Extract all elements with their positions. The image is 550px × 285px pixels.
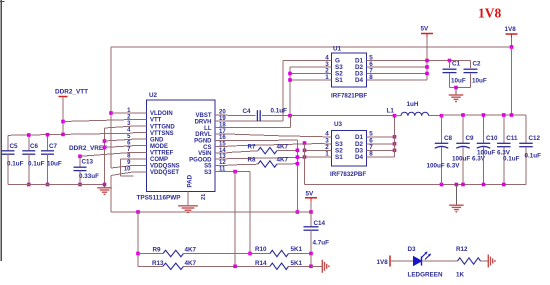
- resistor R7 4K7: [228, 151, 259, 153]
- svg-text:1V8: 1V8: [478, 6, 501, 21]
- wire U1 drains to 5V column D1: [374, 60, 428, 62]
- ground left rail: [104, 185, 106, 188]
- capacitor C14 4.7uF: [310, 212, 312, 227]
- wire 1V8 drop to cap bank: [511, 47, 513, 115]
- svg-text:R12: R12: [456, 246, 468, 253]
- node divider tap upper: [248, 252, 252, 256]
- svg-text:VTTSNS: VTTSNS: [150, 131, 174, 137]
- node GND pin5: [103, 139, 107, 143]
- ground bank: [455, 185, 457, 206]
- svg-text:0.1uF: 0.1uF: [7, 161, 24, 168]
- wire D3: [374, 73, 428, 75]
- svg-text:C1: C1: [452, 61, 461, 68]
- svg-text:C13: C13: [82, 159, 94, 166]
- svg-text:U2: U2: [149, 92, 158, 99]
- wire 1V8 riser to VLDOIN/VDDQSNS: [110, 47, 112, 168]
- node C11 bottom: [502, 183, 506, 187]
- node S1 tie: [303, 155, 307, 159]
- svg-text:C4: C4: [243, 108, 252, 115]
- wire PGOOD to U3 S1: [228, 157, 325, 159]
- svg-text:S1: S1: [335, 154, 343, 161]
- svg-text:GND: GND: [150, 137, 164, 143]
- wire upper divider tap riser: [249, 172, 251, 254]
- node R8 end: [296, 162, 300, 166]
- svg-text:U3: U3: [334, 121, 343, 128]
- node C6 top: [27, 133, 31, 137]
- capacitor C13 0.33uF: [79, 156, 81, 167]
- node C10 top: [482, 113, 486, 117]
- node bank bottom C8: [440, 183, 444, 187]
- node VLDOIN junction: [109, 111, 113, 115]
- svg-text:1V8: 1V8: [505, 26, 517, 33]
- U1 pin stubs: [325, 60, 332, 62]
- node C4 LL junction: [288, 114, 292, 118]
- node CS S-tie: [303, 141, 307, 145]
- svg-text:4K7: 4K7: [277, 157, 289, 164]
- wire pin6 MODE: [105, 146, 134, 148]
- svg-text:R9: R9: [153, 247, 162, 254]
- node C6 bottom: [27, 183, 31, 187]
- svg-text:0.1uF: 0.1uF: [525, 153, 542, 160]
- svg-text:16: 16: [219, 135, 226, 141]
- svg-text:1: 1: [325, 151, 329, 158]
- capacitor C11 0.1uF: [503, 115, 505, 143]
- U2 pin stubs right: [215, 114, 228, 116]
- capacitor C6 0.1uF: [28, 135, 30, 151]
- wire 5V west riser: [110, 176, 112, 213]
- svg-text:D3: D3: [408, 246, 417, 253]
- node C14 R10 junction: [309, 252, 313, 256]
- svg-text:0.1uF: 0.1uF: [503, 156, 520, 163]
- svg-text:DRVH: DRVH: [195, 119, 212, 125]
- svg-text:15: 15: [219, 142, 226, 148]
- svg-text:LEDGREEN: LEDGREEN: [408, 272, 443, 279]
- svg-text:COMP: COMP: [150, 157, 168, 163]
- node R9 riser on 5V wire: [136, 210, 140, 214]
- wire D2: [374, 66, 428, 68]
- svg-text:11: 11: [219, 166, 226, 172]
- wire D1 row extension to C1 C2: [427, 60, 471, 62]
- svg-text:C5: C5: [10, 143, 19, 150]
- node R7 end on drop column: [296, 149, 300, 153]
- svg-text:18: 18: [219, 122, 226, 128]
- node D3 junction: [425, 72, 429, 76]
- svg-text:20: 20: [219, 110, 226, 116]
- wire D4: [374, 79, 428, 81]
- svg-text:C2: C2: [473, 61, 482, 68]
- wire DRVL to U3 gate: [228, 134, 281, 136]
- wire C14 bottom to gnd: [310, 254, 312, 267]
- svg-text:10uF: 10uF: [472, 77, 487, 84]
- U2 pin stubs left: [133, 112, 147, 114]
- wire CS to U3 S3: [228, 143, 325, 146]
- wire pin9 VDDQSNS: [111, 165, 133, 168]
- svg-text:S1: S1: [335, 77, 343, 84]
- svg-text:5V: 5V: [421, 26, 430, 33]
- node C9 bottom: [461, 183, 465, 187]
- node L1 left: [393, 114, 397, 118]
- svg-text:4K7: 4K7: [185, 260, 197, 267]
- svg-text:IRF7821PBF: IRF7821PBF: [331, 93, 367, 100]
- svg-text:8: 8: [369, 151, 373, 158]
- capacitor C12 0.1uF: [525, 115, 527, 143]
- svg-text:LL: LL: [204, 126, 212, 132]
- svg-text:17: 17: [219, 129, 226, 135]
- node MODE pin6: [103, 146, 107, 150]
- svg-text:DDR2_VREF: DDR2_VREF: [69, 145, 107, 152]
- node C7 top: [46, 133, 50, 137]
- wire C1 C2 bottom: [450, 87, 471, 89]
- capacitor C10 100uF 6.3V: [483, 115, 485, 143]
- svg-text:21: 21: [201, 194, 207, 200]
- resistor R9 4K7: [138, 253, 163, 255]
- svg-text:5V: 5V: [306, 191, 315, 198]
- resistor R8 4K7: [228, 163, 259, 166]
- svg-text:12: 12: [219, 160, 226, 166]
- svg-text:R7: R7: [248, 143, 257, 150]
- wire S2 right segment: [305, 149, 325, 151]
- wire LL row: [228, 127, 291, 129]
- node U1 S2 junction: [288, 72, 292, 76]
- svg-text:0.33uF: 0.33uF: [79, 173, 99, 180]
- sheet border left edge: [0, 0, 2, 261]
- wire left gnd rail: [8, 184, 105, 186]
- wire R9 R13 riser: [137, 212, 139, 266]
- resistor R13 4K7: [138, 265, 163, 267]
- node C10 bottom: [482, 183, 486, 187]
- wire 5V drop to U1 drains: [426, 34, 428, 38]
- wire U1 S2: [290, 73, 325, 75]
- U2 pad pin 21 stub: [187, 192, 189, 206]
- U3 pin stubs: [325, 136, 332, 138]
- wire VBST to C4: [228, 115, 256, 117]
- svg-text:R8: R8: [248, 157, 257, 164]
- svg-text:D1: D1: [355, 134, 364, 141]
- wire source tie to gnd rail: [304, 144, 306, 185]
- transistor U1 IRF7821PBF box: [332, 53, 367, 87]
- svg-text:S5: S5: [204, 164, 212, 170]
- wire pin1 VLDOIN: [111, 112, 133, 114]
- wire U1 source tie vertical: [289, 67, 291, 116]
- svg-text:1: 1: [325, 74, 329, 81]
- node L1 right: [440, 114, 444, 118]
- svg-text:4K7: 4K7: [277, 143, 289, 150]
- wire LED anode: [390, 260, 414, 262]
- svg-text:TPS51116PWP: TPS51116PWP: [137, 194, 182, 201]
- wire U1 S1: [290, 79, 325, 81]
- svg-text:PGND: PGND: [194, 139, 212, 145]
- wire LL riser: [290, 116, 292, 128]
- svg-text:MODE: MODE: [150, 144, 168, 150]
- node 1V8 rail end: [510, 45, 514, 49]
- ground U2 pad: [178, 205, 198, 207]
- svg-text:C8: C8: [444, 135, 453, 142]
- svg-text:C11: C11: [506, 135, 518, 142]
- wire DRVH to U1 gate: [228, 120, 284, 122]
- wire PGND drop to 5V wire: [296, 140, 298, 212]
- node R9 left: [136, 252, 140, 256]
- wire bank bottom rail: [442, 184, 527, 186]
- wire pin10 VDDQSET: [111, 172, 133, 176]
- node VTT junction: [61, 120, 65, 124]
- node C7 bottom: [46, 183, 50, 187]
- node C13 bottom: [78, 183, 82, 187]
- svg-text:D4: D4: [355, 154, 364, 161]
- wire U3 drains collector: [374, 136, 395, 138]
- node C1C2 gnd tap: [454, 86, 458, 90]
- svg-text:L1: L1: [387, 108, 395, 115]
- transistor U3 IRF7832PBF box: [332, 131, 367, 167]
- wire 1V8 bank top rail: [442, 114, 527, 116]
- svg-text:1V8: 1V8: [377, 259, 389, 266]
- node C9 top: [461, 113, 465, 117]
- resistor R12 1K: [422, 260, 458, 262]
- wire PGND: [228, 139, 298, 141]
- capacitor C2 10uF: [470, 61, 472, 69]
- ground sideways R12: [487, 255, 489, 268]
- wire drain column to L1: [394, 116, 396, 157]
- svg-text:C12: C12: [529, 135, 541, 142]
- svg-text:C14: C14: [314, 220, 326, 227]
- node drop column on S1: [296, 155, 300, 159]
- wire pin8 COMP: [120, 158, 133, 160]
- node U1 S1 junction: [288, 78, 292, 82]
- node pin11 branch: [233, 170, 237, 174]
- wire 1V8 top rail: [111, 46, 512, 48]
- svg-text:VDDQSET: VDDQSET: [150, 170, 179, 176]
- svg-text:VBST: VBST: [195, 113, 211, 119]
- node 1V8 bank: [510, 113, 514, 117]
- LED D3 LEDGREEN: [414, 257, 422, 266]
- node bank gnd tap: [455, 183, 459, 187]
- svg-text:R13: R13: [152, 260, 164, 267]
- svg-text:5K1: 5K1: [291, 246, 303, 253]
- inductor L1 1uH: [395, 115, 402, 117]
- svg-text:5K1: 5K1: [291, 260, 303, 267]
- svg-text:C7: C7: [49, 143, 58, 150]
- node D1 5V junction: [425, 59, 429, 63]
- svg-text:4K7: 4K7: [185, 247, 197, 254]
- node D2 junction: [425, 65, 429, 69]
- node VREF junction: [78, 155, 82, 159]
- wire VTTSNS rail (C5-C7 top): [8, 133, 133, 135]
- svg-text:14: 14: [219, 148, 226, 154]
- wire lower divider tap riser: [234, 172, 236, 267]
- wire pin5 GND: [105, 139, 134, 141]
- svg-text:VLDOIN: VLDOIN: [150, 111, 173, 117]
- wire S3 pin11 to divider taps: [228, 171, 251, 173]
- svg-text:0.1uF: 0.1uF: [28, 161, 45, 168]
- capacitor C4 0.1uF: [256, 110, 258, 121]
- resistor R14 5K1: [238, 265, 270, 267]
- svg-text:R10: R10: [255, 246, 267, 253]
- wire VTTGND drop: [105, 126, 134, 128]
- wire DDR2_VTT riser: [62, 97, 64, 136]
- svg-text:10uF: 10uF: [451, 77, 466, 84]
- node rail DDR2_VTT join: [61, 133, 65, 137]
- svg-text:100uF 6.3V: 100uF 6.3V: [427, 163, 461, 170]
- svg-text:DRVL: DRVL: [195, 132, 212, 138]
- svg-text:1uH: 1uH: [407, 101, 419, 108]
- svg-text:D4: D4: [355, 77, 364, 84]
- wire 5V bottom distribution: [111, 211, 311, 213]
- svg-text:VTT: VTT: [150, 118, 162, 124]
- node S2 tie: [303, 149, 307, 153]
- svg-text:PGOOD: PGOOD: [189, 157, 212, 163]
- capacitor C8 100uF 6.3V: [441, 115, 443, 143]
- node left gnd tap: [103, 183, 107, 187]
- svg-text:VTTREF: VTTREF: [150, 151, 174, 157]
- svg-text:4.7uF: 4.7uF: [313, 240, 330, 247]
- svg-text:R14: R14: [255, 260, 267, 267]
- svg-text:5: 5: [369, 131, 373, 138]
- svg-text:G: G: [335, 134, 340, 141]
- wire C4 to LL node: [262, 115, 395, 117]
- capacitor C7 10uF: [47, 135, 49, 151]
- svg-text:U1: U1: [333, 46, 342, 53]
- ground sideways R14: [321, 260, 323, 273]
- svg-text:DDR2_VTT: DDR2_VTT: [55, 89, 88, 96]
- capacitor C5 0.1uF: [7, 135, 9, 151]
- svg-text:8: 8: [369, 74, 373, 81]
- svg-text:19: 19: [219, 116, 226, 122]
- svg-text:10uF: 10uF: [47, 161, 62, 168]
- wire U1 source tie S3: [290, 66, 325, 68]
- wire L1 right to bank: [429, 115, 442, 117]
- svg-text:IRF7832PBF: IRF7832PBF: [330, 171, 366, 178]
- svg-text:0.1uF: 0.1uF: [271, 108, 288, 115]
- node R14 gnd junction: [309, 265, 313, 269]
- capacitor C1 10uF: [449, 61, 451, 69]
- svg-text:V5IN: V5IN: [198, 151, 211, 157]
- svg-text:PAD: PAD: [187, 174, 194, 187]
- svg-text:4: 4: [325, 131, 329, 138]
- wire VTTREF: [80, 152, 133, 156]
- svg-text:VTTGND: VTTGND: [150, 124, 175, 130]
- svg-text:C10: C10: [486, 135, 498, 142]
- svg-text:VDDQSNS: VDDQSNS: [150, 164, 180, 170]
- svg-text:C9: C9: [466, 135, 475, 142]
- svg-text:13: 13: [219, 154, 226, 160]
- ground C1 C2: [455, 88, 457, 95]
- svg-text:100uF 6.3V: 100uF 6.3V: [452, 156, 486, 163]
- op-amp U2 TPS51116PWP box: [147, 100, 216, 192]
- capacitor C9 100uF 6.3V: [462, 115, 464, 143]
- node 5V wire join: [296, 210, 300, 214]
- wire pin2 VTT: [63, 120, 133, 122]
- svg-text:1K: 1K: [456, 272, 465, 279]
- node 5V C14 junction: [309, 210, 313, 214]
- svg-text:CS: CS: [203, 145, 211, 151]
- resistor R10 5K1: [238, 253, 270, 255]
- node C11 top: [502, 113, 506, 117]
- svg-text:S3: S3: [204, 170, 212, 176]
- node C1 top junction: [448, 59, 452, 63]
- node divider tap lower: [233, 265, 237, 269]
- svg-text:C6: C6: [30, 143, 39, 150]
- svg-text:10: 10: [124, 167, 131, 173]
